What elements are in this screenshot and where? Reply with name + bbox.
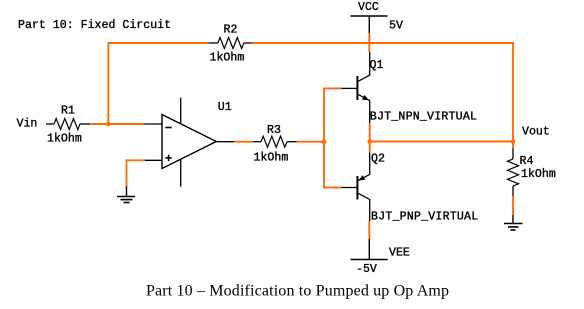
svg-text:VCC: VCC	[358, 1, 379, 14]
svg-text:1kOhm: 1kOhm	[210, 51, 245, 64]
wire R2 to right vertical rail	[252, 42, 514, 44]
svg-text:BJT_PNP_VIRTUAL: BJT_PNP_VIRTUAL	[371, 211, 478, 224]
wire R4 to ground	[512, 196, 514, 215]
resistor R1	[46, 119, 90, 130]
wire Q1 emitter to Q2 emitter	[369, 123, 371, 152]
svg-text:-5V: -5V	[356, 263, 377, 276]
svg-text:Q2: Q2	[371, 153, 385, 166]
svg-text:1kOhm: 1kOhm	[521, 168, 556, 181]
svg-text:R2: R2	[224, 23, 238, 36]
transistor Q2	[342, 152, 370, 221]
wire R1 to op-amp minus input	[90, 123, 145, 125]
wire emitters to Vout	[370, 141, 513, 143]
svg-text:Vout: Vout	[522, 125, 550, 138]
resistor R2	[209, 38, 252, 49]
wire input node up to R2	[107, 42, 109, 125]
wire bases vertical rail	[323, 88, 325, 189]
wire op-amp output to R3	[234, 141, 253, 143]
power VCC symbol	[351, 16, 388, 33]
wire Vout to R4	[512, 142, 514, 149]
resistor R4	[508, 149, 519, 197]
svg-text:BJT_NPN_VIRTUAL: BJT_NPN_VIRTUAL	[370, 110, 477, 123]
node bases junction dot	[322, 139, 327, 144]
ground (op-amp plus input)	[117, 186, 135, 202]
op-amp U1	[145, 98, 235, 187]
svg-text:Part 10 – Modification to Pump: Part 10 – Modification to Pumped up Op A…	[146, 283, 449, 300]
svg-text:R4: R4	[520, 155, 534, 168]
ground (below R4)	[504, 215, 523, 230]
wire VCC to Q1 collector	[368, 33, 370, 52]
wire Q2 collector to VEE	[368, 221, 370, 239]
svg-text:U1: U1	[218, 101, 232, 114]
wire R3 to bases rail	[297, 141, 325, 143]
svg-text:VEE: VEE	[389, 246, 410, 259]
wire to Q2 base	[323, 187, 341, 189]
svg-text:Vin: Vin	[17, 117, 38, 130]
resistor R3	[253, 136, 297, 147]
svg-text:5V: 5V	[389, 19, 403, 32]
node Vout junction dot	[511, 139, 516, 144]
wire top rail to R2	[108, 42, 209, 44]
node A junction dot	[106, 122, 111, 127]
svg-text:Q1: Q1	[370, 59, 384, 72]
transistor Q1	[342, 52, 370, 123]
node emitters junction dot	[367, 139, 372, 144]
wire right vertical rail down to Vout	[512, 42, 514, 141]
svg-text:R1: R1	[61, 104, 75, 117]
power VEE symbol	[351, 239, 388, 260]
wire to Q1 base	[323, 87, 341, 89]
wire plus input	[127, 159, 146, 161]
svg-text:Part 10: Fixed Circuit: Part 10: Fixed Circuit	[18, 19, 171, 32]
svg-text:1kOhm: 1kOhm	[47, 132, 82, 145]
wire plus input down to ground	[126, 159, 128, 186]
svg-text:1kOhm: 1kOhm	[254, 151, 289, 164]
svg-text:R3: R3	[267, 124, 281, 137]
